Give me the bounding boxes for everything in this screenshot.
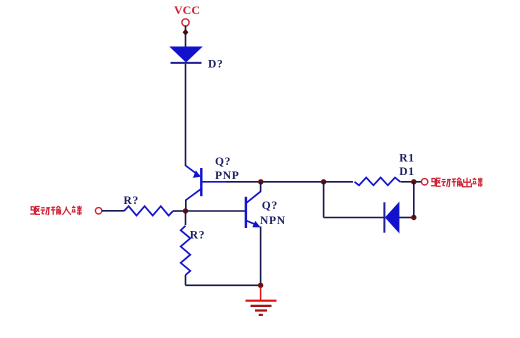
svg-text:R1: R1: [399, 152, 414, 164]
junction dot node A: [183, 208, 188, 213]
wire PNP collector down to node A: [185, 200, 187, 212]
char 入: [62, 207, 71, 215]
svg-text:D1: D1: [399, 166, 414, 178]
transistor Q1 PNP base pin (blue part): [202, 181, 228, 183]
char 动: [41, 208, 51, 215]
svg-text:D?: D?: [208, 59, 223, 71]
svg-text:PNP: PNP: [215, 170, 239, 182]
wire R1 to output junction: [401, 181, 417, 183]
ground bar 4: [259, 314, 263, 316]
char 端: [72, 206, 82, 215]
char 端: [472, 178, 482, 187]
output net label 驱动输出端 (drawn glyphs): [431, 178, 482, 187]
diode D1 cathode bar: [383, 202, 385, 232]
wire lower right junction up to output node: [413, 182, 415, 218]
transistor Q2 NPN emitter diagonal: [246, 221, 256, 225]
wire to D1 anode side: [324, 217, 384, 219]
wire node A down to R? vertical: [185, 211, 187, 225]
diode D1 triangle (points left): [386, 203, 399, 232]
diode D? triangle (anode): [171, 47, 202, 62]
wire VCC circle to junction diamond: [185, 26, 187, 30]
ground bar 2: [251, 305, 272, 307]
wire node A to NPN base: [186, 210, 246, 212]
transistor Q1 PNP emitter diagonal: [186, 166, 200, 177]
junction dot at NPN collector on base rail: [258, 179, 263, 184]
wire D1 to right junction: [399, 217, 414, 219]
input net label 驱动输入端 (drawn glyphs): [30, 206, 81, 215]
resistor R1 zigzag: [355, 178, 401, 186]
VCC terminal circle: [182, 19, 189, 26]
output terminal circle: [421, 179, 427, 185]
char 出: [463, 178, 472, 187]
junction dot node B (left of R1/D1 network): [321, 179, 326, 184]
input terminal circle: [95, 208, 101, 214]
diode D? cathode bar: [171, 62, 202, 64]
svg-text:VCC: VCC: [174, 3, 200, 17]
svg-text:NPN: NPN: [260, 215, 286, 227]
wire PNP base to node B rail: [227, 181, 325, 183]
junction dot at ground node: [258, 283, 263, 288]
wire NPN emitter down to ground junction: [260, 227, 262, 286]
svg-text:R?: R?: [190, 229, 205, 241]
wire diode D? to PNP emitter: [185, 64, 187, 166]
ground bar 3: [255, 309, 267, 311]
transistor Q1 PNP base bar: [200, 168, 202, 196]
wire input terminal to R?: [102, 210, 124, 212]
transistor Q1 PNP emitter arrow (points into base bar): [193, 170, 201, 178]
wire R? vertical to bottom rail: [185, 275, 187, 285]
char 输: [51, 206, 61, 215]
resistor R? horizontal zigzag: [124, 206, 173, 215]
ground stem: [260, 287, 262, 300]
transistor Q2 NPN emitter arrow (points outward): [252, 221, 260, 228]
char 驱: [431, 178, 441, 186]
wire NPN collector up to base rail: [260, 182, 262, 192]
ground bar 1: [246, 300, 277, 302]
junction diamond at VCC: [183, 29, 189, 36]
svg-text:Q?: Q?: [215, 156, 231, 168]
bottom wire to ground junction: [186, 284, 261, 286]
svg-text:R?: R?: [124, 195, 139, 207]
wire diamond to diode D?: [185, 34, 187, 48]
char 输: [452, 178, 462, 187]
resistor R? vertical zigzag: [181, 226, 191, 275]
transistor Q2 NPN base bar: [245, 197, 247, 228]
svg-text:Q?: Q?: [262, 200, 278, 212]
junction dot lower right: [411, 215, 416, 220]
transistor Q2 NPN collector diagonal: [247, 191, 261, 203]
char 驱: [30, 207, 40, 215]
wire R? to node A: [173, 210, 186, 212]
wire node B down to D1 branch: [323, 182, 325, 218]
junction dot at output node: [411, 179, 416, 184]
char 动: [441, 180, 451, 187]
wire node B to R1: [325, 181, 354, 183]
wire output junction to output terminal: [416, 181, 422, 183]
transistor Q1 PNP collector diagonal: [186, 189, 201, 200]
